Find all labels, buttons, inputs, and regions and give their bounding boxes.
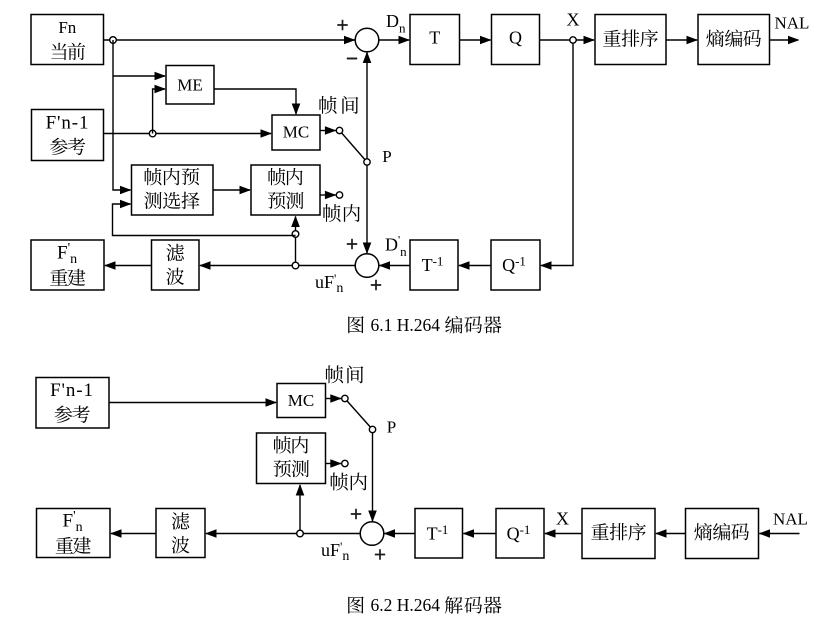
- wire bus branch to ME input 1: [113, 75, 165, 77]
- junction on uF line decoder: [297, 530, 304, 537]
- label plus bottom at A2: [371, 280, 381, 290]
- svg-text:NAL: NAL: [773, 509, 808, 528]
- wire T-1 to adder A3: [385, 533, 416, 535]
- wire bus from Fn junction down to intra-select input 1: [113, 40, 131, 190]
- box 重排序 decoder: [582, 509, 655, 559]
- adder A3: [360, 522, 384, 546]
- box F'n-1 参考 (reference frame): [32, 110, 104, 161]
- node P circle: [364, 159, 370, 165]
- wire junction up to ME input 2: [153, 89, 165, 134]
- svg-text:uF'n: uF'n: [315, 271, 343, 296]
- box ME (motion estimation): [166, 66, 214, 105]
- wire Q-1 to T-1: [459, 265, 491, 267]
- wire NAL input to 熵编码 decoder: [760, 533, 800, 535]
- box F'n 重建 (reconstructed frame): [31, 240, 104, 290]
- box 熵编码 (entropy coding): [698, 15, 770, 65]
- switch contact circle inter: [336, 127, 342, 133]
- box F'n 重建 decoder: [37, 509, 111, 558]
- wire intra-predict output to switch contact decoder: [326, 463, 342, 465]
- wire adder A2 to 滤波: [200, 265, 356, 267]
- wire ME output to MC top: [214, 89, 296, 114]
- box Q-1 decoder: [496, 509, 544, 559]
- box T-1 (inverse transform): [410, 240, 458, 290]
- svg-text:X: X: [567, 9, 580, 29]
- label plus at A1: [337, 20, 347, 30]
- box 重排序 (reorder): [595, 15, 666, 65]
- box MC decoder: [277, 384, 326, 418]
- caption 图 6.1 H.264 编码器: [348, 316, 364, 333]
- wire feedback from uF junction up to intra-predict bottom: [295, 217, 297, 266]
- switch contact circle intra decoder: [342, 460, 348, 466]
- svg-text:Q: Q: [509, 27, 522, 47]
- box 帧内预测选择 (intra prediction select): [132, 165, 214, 215]
- svg-text:ME: ME: [177, 75, 203, 94]
- wire 滤波 to F'n重建 decoder: [111, 533, 156, 535]
- wire vertical P line: up to adder A1 minus, down to adder A2 plus: [366, 52, 368, 255]
- label minus at A1: [347, 58, 357, 60]
- label plus top at A3: [351, 509, 361, 519]
- svg-text:Fn: Fn: [58, 18, 76, 37]
- wire intra-predict output to switch contact: [320, 194, 336, 196]
- box 滤波 (filter): [152, 240, 200, 290]
- wire 滤波 to F'n重建: [105, 265, 152, 267]
- svg-text:F'n-1: F'n-1: [46, 113, 90, 134]
- junction on F'n-1 output: [149, 130, 156, 137]
- wire Q to 重排序 through node X: [540, 39, 595, 41]
- switch contact circle intra: [336, 192, 342, 198]
- adder A1 (subtractor): [355, 28, 379, 52]
- junction on Fn output: [110, 37, 117, 44]
- svg-text:NAL: NAL: [775, 14, 810, 33]
- svg-text:T: T: [429, 27, 440, 47]
- junction on uF line: [292, 262, 299, 269]
- wire F'n-1 to MC decoder: [109, 402, 276, 404]
- wire MC output to switch contact: [320, 130, 336, 132]
- box 滤波 decoder: [156, 509, 205, 558]
- wire 熵编码 to 重排序 decoder: [656, 533, 686, 535]
- svg-text:D'n: D'n: [385, 233, 407, 260]
- wire F'n-1 to MC: [104, 133, 272, 135]
- wire 重排序 to Q-1 decoder: [545, 533, 582, 535]
- label plus bottom at A3: [375, 549, 385, 559]
- wire 熵编码 to NAL output: [770, 39, 799, 41]
- svg-text:X: X: [556, 508, 569, 528]
- wire 重排序 to 熵编码: [666, 39, 697, 41]
- box Q-1 (inverse quantize): [491, 240, 540, 290]
- adder A2 (reconstruction): [355, 254, 379, 278]
- wire intra-select to intra-predict: [213, 189, 250, 191]
- box 帧内预测 (intra prediction): [251, 165, 320, 215]
- svg-text:P: P: [382, 147, 391, 166]
- svg-text:Dn: Dn: [386, 11, 406, 36]
- switch blade decoder: [345, 399, 373, 430]
- label 帧内 (intra): [323, 204, 340, 222]
- switch blade from inter contact to node P: [340, 131, 368, 163]
- wire feedback junction up to intra-predict bottom decoder: [299, 485, 301, 534]
- node P circle decoder: [369, 426, 375, 432]
- wire adder A3 to 滤波 decoder: [206, 533, 361, 535]
- caption 图 6.2 H.264 解码器: [348, 596, 364, 613]
- wire Fn to adder A1: [104, 39, 356, 41]
- wire T to Q: [460, 39, 491, 41]
- box T-1 decoder: [415, 509, 463, 559]
- wire MC output to switch contact decoder: [326, 398, 342, 400]
- svg-text:P: P: [387, 418, 396, 437]
- svg-text:MC: MC: [288, 391, 314, 410]
- svg-text:uF'n: uF'n: [321, 539, 349, 564]
- label 帧间 (inter): [319, 96, 336, 114]
- label plus top at A2: [347, 239, 357, 249]
- wire A1 to T: [379, 39, 410, 41]
- node X junction circle: [570, 37, 576, 43]
- box F'n-1 参考 decoder: [36, 378, 109, 429]
- junction on feedback at y233.5: [292, 231, 299, 238]
- wire T-1 to adder A2: [380, 265, 411, 267]
- box Q (quantize): [492, 15, 540, 65]
- box 熵编码 decoder: [686, 509, 759, 559]
- label 帧内 decoder: [331, 473, 348, 491]
- wire Q-1 to T-1 decoder: [464, 533, 497, 535]
- box Fn当前 (current frame): [31, 15, 104, 65]
- switch contact circle inter decoder: [342, 395, 348, 401]
- svg-text:MC: MC: [283, 122, 309, 141]
- svg-text:6.2 H.264: 6.2 H.264: [371, 595, 441, 615]
- box T (transform): [410, 15, 460, 65]
- box MC (motion compensation): [272, 115, 320, 150]
- box 帧内预测 decoder: [257, 433, 326, 484]
- svg-text:6.1 H.264: 6.1 H.264: [371, 315, 441, 335]
- label 帧间 decoder: [326, 365, 343, 383]
- wire node X down to Q-1: [541, 43, 573, 265]
- wire feedback left to intra-select input 2: [113, 204, 296, 236]
- svg-text:F'n-1: F'n-1: [50, 380, 94, 401]
- wire node P down to adder A3: [372, 430, 374, 523]
